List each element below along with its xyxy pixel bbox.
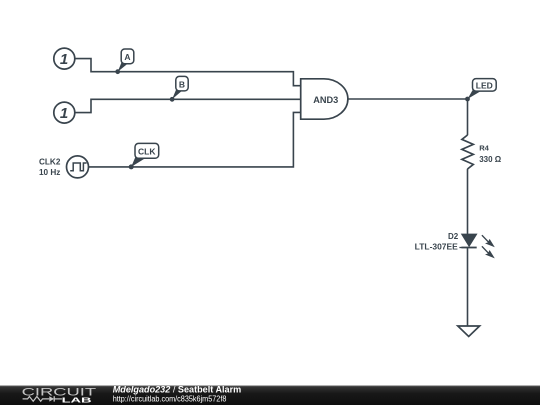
wire V1 to A	[75, 59, 301, 86]
svg-text:A: A	[124, 52, 130, 62]
footer bar	[0, 385, 540, 405]
node B	[170, 76, 188, 101]
svg-text:330 Ω: 330 Ω	[479, 155, 502, 164]
svg-text:10 Hz: 10 Hz	[39, 168, 60, 177]
node CLK	[129, 143, 159, 169]
svg-text:1: 1	[60, 105, 68, 122]
wire CLK2 to gate	[89, 112, 301, 166]
svg-text:LED: LED	[476, 80, 493, 90]
svg-text:B: B	[179, 79, 185, 89]
svg-text:AND3: AND3	[313, 95, 338, 105]
svg-text:D2: D2	[448, 232, 459, 241]
source V2 constant 1	[54, 102, 75, 123]
led D2	[415, 232, 495, 258]
svg-text:1: 1	[60, 51, 68, 68]
ground	[458, 326, 480, 337]
svg-text:LTL-307EE: LTL-307EE	[415, 242, 459, 251]
and gate AND3	[301, 79, 348, 119]
wire V2 to B	[75, 99, 301, 112]
svg-text:http://circuitlab.com/c835k6jm: http://circuitlab.com/c835k6jm572f8	[113, 394, 227, 403]
svg-text:CLK2: CLK2	[39, 157, 61, 166]
clock source CLK2	[39, 156, 89, 178]
svg-text:R4: R4	[479, 144, 489, 153]
svg-text:CLK: CLK	[138, 147, 156, 157]
source V1 constant 1	[54, 48, 75, 69]
wire R4 to D2	[467, 169, 469, 235]
svg-text:LAB: LAB	[62, 396, 93, 405]
wire D2 to ground	[467, 248, 469, 327]
node A	[115, 49, 134, 74]
wire gate output to LED node	[348, 98, 468, 100]
circuitlab logo	[22, 387, 97, 405]
svg-text:Mdelgado232 / Seatbelt Alarm: Mdelgado232 / Seatbelt Alarm	[113, 385, 242, 395]
resistor R4	[462, 135, 502, 169]
node LED	[465, 79, 496, 102]
wire LED node to R4	[467, 99, 469, 135]
